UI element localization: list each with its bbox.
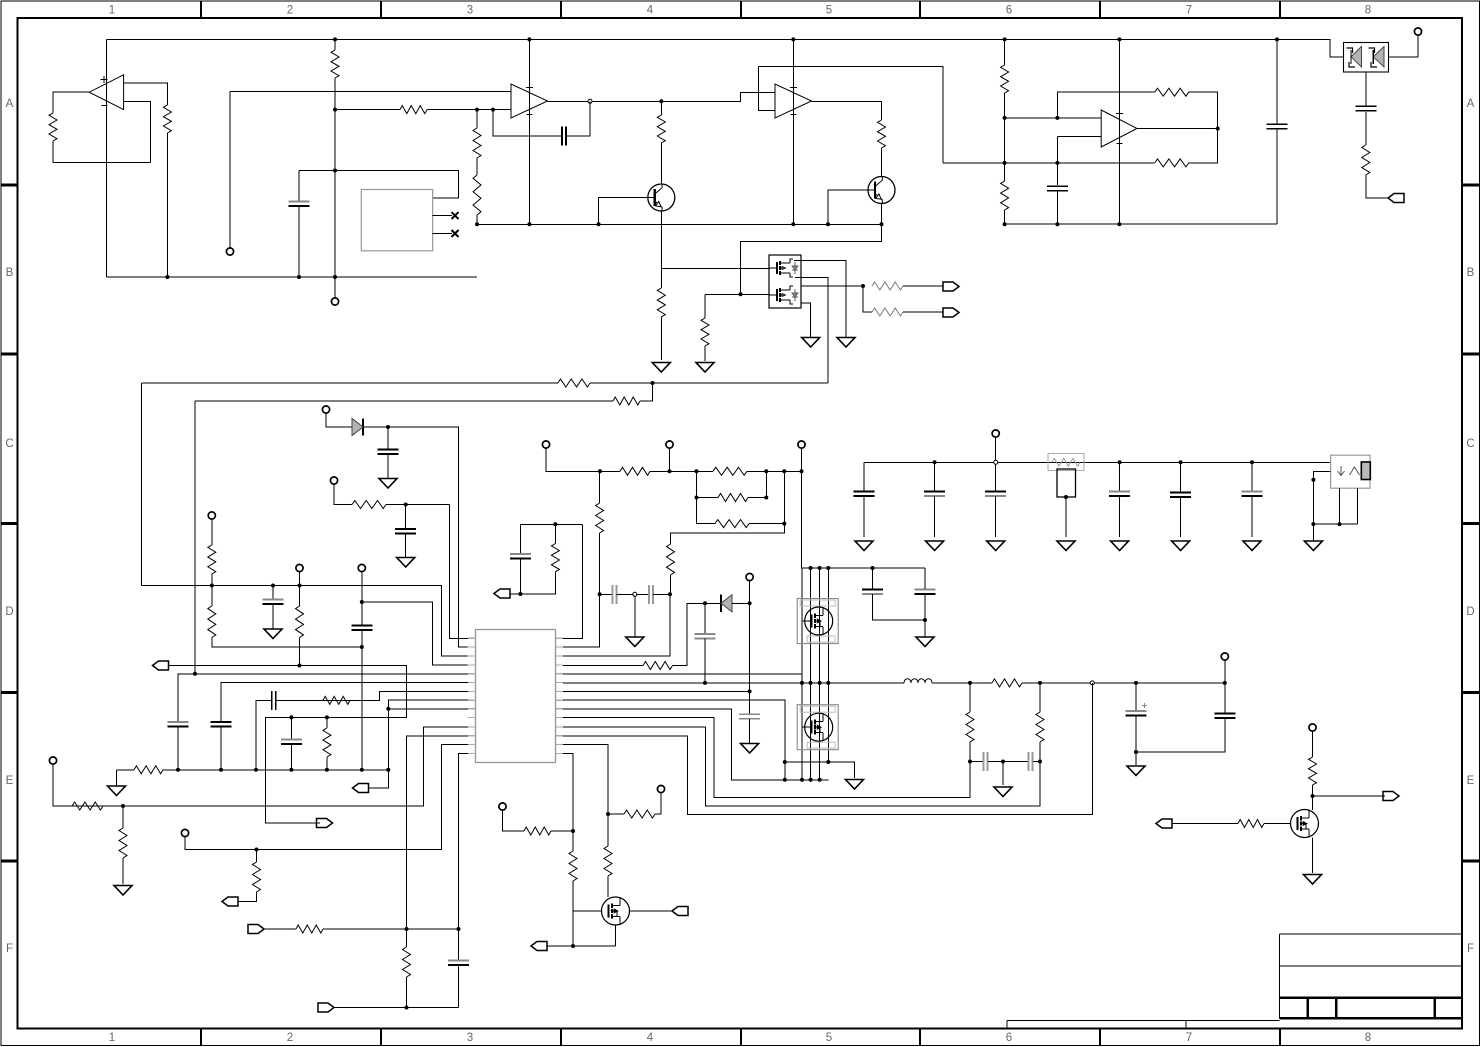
wire V749	[749, 581, 751, 715]
wire pin11R	[563, 727, 1040, 806]
wire U2 out	[548, 93, 776, 102]
wire gate Q6	[573, 910, 602, 912]
wire V828 lower	[827, 683, 829, 762]
ground GND24	[397, 558, 415, 568]
IC U6 box	[476, 630, 556, 763]
capacitor C30	[448, 961, 469, 966]
terminal J18	[1309, 724, 1316, 731]
wire C11 drop	[995, 464, 997, 491]
wire pin5R	[563, 673, 802, 675]
svg-text:3: 3	[467, 5, 473, 17]
wire R5-R6	[476, 158, 478, 175]
ground GND21	[1127, 766, 1145, 776]
net tag DRV1	[672, 907, 688, 916]
resistor R21	[208, 606, 216, 638]
svg-text:8: 8	[1365, 1032, 1371, 1044]
wire J2 stub	[229, 92, 231, 248]
wire pin7R	[563, 690, 750, 692]
resistor R41	[72, 802, 103, 810]
node U2 out feedback	[588, 99, 592, 103]
wire pin1L	[449, 505, 468, 639]
terminal J19	[330, 477, 337, 484]
wire y770 gnd drop	[116, 770, 118, 786]
ground GND12	[1172, 541, 1190, 551]
net tag FB2	[318, 1003, 334, 1012]
wire pin12L	[407, 736, 469, 929]
wire C10 down	[934, 496, 936, 537]
wire rail to R11	[1004, 39, 1006, 65]
wire cap C18 drop	[290, 717, 292, 739]
TVS D1 box	[1344, 43, 1389, 73]
wire Q1 collector	[660, 143, 662, 184]
capacitor C5	[289, 202, 310, 207]
wire V802 feed	[801, 471, 804, 568]
wire Q3 mid out	[801, 285, 863, 287]
resistor R16	[872, 282, 903, 290]
resistor R9	[878, 120, 886, 148]
svg-text:D: D	[1466, 606, 1474, 618]
row labels right	[1466, 98, 1474, 955]
dual MOSFET Q3	[769, 255, 801, 308]
wire cap C5 top	[298, 171, 300, 202]
title block row1	[1279, 965, 1462, 967]
node open J11	[994, 460, 998, 464]
wire C14 drop	[1251, 462, 1253, 491]
svg-text:2: 2	[287, 1032, 293, 1044]
resistor R31	[551, 544, 559, 572]
wire mid bus	[477, 223, 882, 225]
wire R3 down	[334, 78, 336, 298]
wire U5 pin2 L	[1313, 471, 1357, 524]
wire V819 upper	[819, 568, 821, 683]
wire Q7 drain tag	[1313, 795, 1386, 797]
wire J19 stub	[334, 484, 352, 505]
wire C22 down	[704, 639, 706, 683]
svg-text:C: C	[1466, 438, 1474, 450]
wire TVS center tap	[1365, 72, 1367, 106]
row tick marks left	[1, 185, 18, 861]
wire Q6 drain tag	[630, 910, 672, 912]
MOSFET Q5 boxed	[797, 705, 838, 750]
wire C4 down	[1365, 112, 1367, 145]
wire flag y594	[511, 593, 521, 595]
capacitor C15	[168, 722, 189, 727]
terminal J7	[358, 564, 365, 571]
capacitor C4	[1355, 106, 1376, 111]
svg-text:7: 7	[1186, 1032, 1192, 1044]
wire C28 gnd	[1135, 752, 1137, 765]
ground GND14	[1304, 541, 1322, 551]
wire TVS right to J3	[1389, 36, 1419, 58]
wire C13 down	[1180, 497, 1182, 537]
wire C11 down	[995, 496, 997, 537]
terminal J6	[296, 564, 303, 571]
wire pin13R	[563, 745, 608, 815]
wire C15 down	[177, 727, 179, 770]
wire C10 drop	[934, 462, 936, 491]
wire D3 right	[732, 602, 750, 604]
wire gate bus upper	[661, 267, 769, 269]
capacitor C17	[272, 691, 276, 710]
junction dots V784 bus	[783, 778, 822, 782]
wire y761 bus	[970, 761, 983, 763]
MOSFET Q4 boxed	[797, 599, 838, 644]
junction dot y647	[360, 645, 364, 649]
ground GND20	[994, 787, 1012, 797]
resistor R2	[163, 105, 171, 133]
junction dot y929b	[457, 927, 461, 931]
resistor R48	[352, 501, 386, 509]
capacitor C21	[649, 585, 653, 604]
resistor R22	[296, 606, 304, 638]
row tick marks right	[1462, 185, 1480, 861]
wire R15 to tag	[1366, 175, 1388, 198]
wire R22 top	[299, 586, 301, 607]
title block outer	[1279, 934, 1462, 1018]
svg-text:2: 2	[287, 5, 293, 17]
ground GND9	[987, 541, 1005, 551]
wire R25 wires	[697, 471, 767, 497]
wire y929 line	[264, 928, 296, 930]
junction dots pair	[518, 522, 557, 596]
wire Q3 src1	[795, 278, 828, 384]
svg-text:C: C	[5, 438, 13, 450]
wire flag line y946	[547, 945, 616, 947]
wire -in bus U2 right	[427, 109, 511, 111]
junction dot y504	[404, 503, 408, 507]
wire y504 line	[386, 504, 449, 506]
svg-text:F: F	[6, 943, 13, 955]
node open y594	[633, 592, 637, 596]
title block band bottom	[1279, 1017, 1462, 1020]
junction dot Q3 node	[861, 284, 865, 288]
junction dot y665 R22	[298, 664, 302, 668]
resistor R38	[569, 851, 577, 881]
junction dot C24	[871, 566, 928, 622]
wire V784 ladder	[671, 471, 785, 544]
IC1 pin nc2	[433, 230, 459, 237]
svg-text:1: 1	[109, 5, 115, 17]
capacitor C23	[739, 714, 760, 719]
wire V819 lower	[819, 683, 821, 780]
wire C31 top	[405, 505, 407, 529]
wire rail to R3	[334, 39, 336, 50]
wire y401 bus	[195, 400, 613, 402]
junction dots top section	[165, 37, 1279, 296]
wire V810 lower	[810, 683, 812, 780]
capacitor C16	[211, 722, 232, 727]
U5 internals	[1338, 466, 1360, 476]
terminal J10	[798, 441, 805, 448]
resistor R28	[323, 696, 350, 704]
resistor R43	[253, 862, 261, 892]
wire U5 pin bottom1	[1339, 488, 1341, 524]
wire U4 -in	[1057, 136, 1101, 138]
wire Q4 gate tap	[802, 620, 812, 622]
wire C14 down	[1251, 496, 1253, 537]
svg-text:3: 3	[467, 1032, 473, 1044]
net tag PWM1	[531, 942, 547, 951]
capacitor C13	[1170, 493, 1191, 498]
svg-text:D: D	[5, 606, 13, 618]
wire cap line end	[653, 593, 670, 595]
wire y163 bus	[943, 162, 1154, 164]
wire R22 to flag line	[299, 638, 301, 666]
capacitor C28 elec	[1126, 703, 1148, 716]
inductor L1	[904, 679, 932, 683]
wire pin13L	[185, 745, 468, 850]
wire pin14R	[563, 753, 573, 946]
svg-text:7: 7	[1186, 5, 1192, 17]
wire C3 down	[1276, 129, 1278, 224]
wire R7 top	[660, 101, 662, 115]
wire C28 branch	[1135, 683, 1137, 711]
wire Q2 emitter	[741, 204, 882, 295]
wire J13 line dot	[255, 848, 259, 852]
ground GND7	[855, 541, 873, 551]
wire R14 to corner	[1057, 92, 1154, 118]
wire R5 top	[476, 110, 478, 128]
wire R34 right	[1022, 682, 1225, 684]
op-amp U2	[511, 84, 548, 118]
capacitor C3	[1267, 124, 1288, 129]
op-amp U3	[775, 84, 812, 118]
terminal J5	[208, 512, 215, 519]
terminal J14	[746, 573, 753, 580]
pi filter R36	[1036, 683, 1044, 762]
resistor R17	[872, 308, 903, 316]
wire U3 bypass top	[758, 66, 943, 163]
terminal J12	[49, 757, 56, 764]
wire V1277 top	[1276, 39, 1278, 124]
wire gate bus lower	[705, 293, 769, 295]
wire R18 to node	[590, 382, 828, 384]
wire C7 to gnd	[272, 604, 274, 629]
junction dots y585	[210, 584, 302, 588]
wire U3 through rail	[792, 39, 794, 224]
ground GND4	[802, 338, 820, 348]
wire L1 to R34	[932, 682, 992, 684]
junction dot C22	[703, 681, 707, 685]
ground GND23	[1304, 875, 1322, 885]
wire C19 down	[519, 559, 521, 595]
wire J15 stub	[1224, 660, 1226, 683]
resistor R32	[596, 503, 604, 533]
ground GND1	[652, 363, 670, 373]
wire J8 stub	[546, 448, 600, 471]
IC1 box	[361, 190, 432, 251]
ground GND2	[696, 363, 714, 373]
wire pin10R	[563, 717, 970, 797]
wire pin9R	[563, 709, 828, 780]
wire sense branch	[863, 286, 872, 312]
capacitor C20	[613, 585, 617, 604]
ground GND11	[1111, 541, 1129, 551]
capacitor C9	[854, 492, 875, 497]
junction dots y770	[176, 768, 390, 772]
junction dot y806	[121, 804, 125, 808]
diode D2	[352, 418, 363, 435]
wire J7 stub	[361, 572, 363, 603]
wire J4 to diode	[326, 413, 352, 427]
wire gnd drop y594	[634, 596, 636, 637]
junction dot V573a	[571, 829, 575, 833]
resistor R45	[403, 947, 411, 977]
svg-text:8: 8	[1365, 5, 1371, 17]
capacitor C19	[510, 554, 531, 559]
junction dot pin9L	[386, 707, 390, 711]
wire cap C6 branch	[387, 427, 389, 449]
wire C24 down	[873, 594, 926, 620]
wire C29 branch	[1224, 683, 1226, 713]
column tick marks top	[201, 1, 1280, 18]
wire R25 drop	[696, 471, 698, 497]
terminal J11	[992, 430, 999, 437]
ground GND8	[926, 541, 944, 551]
ground GND19	[916, 637, 934, 647]
wire J5 down	[211, 519, 213, 545]
wire R21 to y647	[212, 638, 362, 648]
wire C29 down	[1136, 718, 1225, 752]
svg-text:6: 6	[1006, 1032, 1012, 1044]
junction dot D2 line	[386, 425, 390, 429]
ground GND15	[108, 786, 126, 796]
capacitor C18	[281, 740, 302, 745]
resistor R15	[1362, 145, 1370, 175]
wire R26 wires	[697, 523, 785, 525]
wire big L left	[140, 383, 142, 586]
wire R43 drop	[256, 850, 258, 863]
svg-text:B: B	[6, 267, 14, 279]
wire C19 top	[519, 524, 521, 554]
wire pin4R	[563, 665, 643, 667]
wire V802 lower	[801, 683, 803, 780]
wire C5 down	[298, 206, 300, 277]
net tag DRV2	[1156, 819, 1172, 828]
resistor R14	[1155, 88, 1189, 96]
ground GND18	[846, 780, 864, 790]
junction dot spur	[826, 760, 830, 764]
junction dots ladder	[598, 469, 804, 525]
wire U2 feedback	[567, 101, 590, 136]
wire V1119	[1118, 39, 1120, 224]
TVS D1 diode right	[1369, 47, 1385, 68]
wire y1007 line	[334, 1007, 459, 1009]
TVS D1 diode left	[1347, 47, 1362, 68]
wire RT1 down	[1065, 497, 1067, 537]
resistor R30	[134, 766, 163, 774]
wire Q7 gate line	[1173, 823, 1239, 825]
net tag VOUT	[1383, 792, 1399, 801]
terminal J1	[331, 298, 338, 305]
wire bottom row B bus	[107, 276, 478, 278]
terminal J4	[322, 406, 329, 413]
junction dots pi top	[968, 681, 1042, 685]
wire C30 top	[458, 929, 460, 960]
wire R26 drop	[696, 498, 698, 524]
wire y471 right	[747, 470, 802, 472]
wire flag y665	[169, 666, 407, 824]
junction dot V784	[783, 760, 787, 764]
thermistor RT1	[1057, 469, 1076, 497]
wire Q2 base	[828, 190, 868, 224]
wire C16 down	[220, 727, 222, 770]
wire C23 down	[749, 719, 751, 743]
junction dot D3a	[703, 601, 707, 605]
wire pin8L flag drop	[387, 770, 389, 788]
wire C6 to gnd	[387, 454, 389, 479]
ground GND16	[626, 637, 644, 647]
terminal J9	[666, 441, 673, 448]
wire Q7 source	[1312, 838, 1314, 874]
wire pin6R bus	[563, 682, 904, 684]
ground GND6	[264, 629, 282, 639]
wire U4 fb top right	[1189, 92, 1218, 128]
wire cap line mid	[617, 593, 649, 595]
svg-text:4: 4	[647, 5, 654, 17]
wire R43 to tag	[238, 892, 257, 902]
wire C2 down	[1056, 191, 1058, 224]
wire D2 to corner	[363, 427, 468, 647]
wire C9 down	[863, 496, 865, 537]
wire U5 gnd stem	[1312, 524, 1314, 540]
regulator U5 box	[1331, 455, 1370, 488]
U5 pad	[1361, 462, 1370, 480]
approval strip	[1007, 1021, 1279, 1029]
node open y683	[1090, 681, 1094, 685]
resistor R40	[624, 810, 655, 818]
junction dot R32	[598, 592, 602, 596]
IC1 pin nc1	[433, 212, 459, 219]
wire cap C7 branch	[272, 586, 274, 600]
svg-text:A: A	[6, 98, 14, 110]
wire C28 down	[1135, 716, 1137, 753]
wire J10 stub	[801, 448, 803, 471]
wire C12 down	[1119, 496, 1121, 537]
diode D3	[721, 595, 732, 612]
junction dot pin3R	[668, 592, 672, 596]
column labels bottom	[109, 1032, 1371, 1044]
wire C8 down	[361, 630, 363, 770]
wire -in down	[1056, 137, 1058, 186]
capacitor C6	[378, 450, 399, 455]
column labels top	[109, 5, 1371, 17]
svg-text:E: E	[6, 775, 14, 787]
resistor R29	[323, 728, 331, 757]
capacitor C2	[1047, 186, 1068, 191]
capacitor C22	[695, 634, 716, 639]
net tag IN2	[317, 819, 333, 828]
wire U4 out	[1137, 128, 1218, 130]
wire R32 top	[599, 471, 601, 503]
wire V195	[194, 401, 196, 674]
junction dots bus683	[800, 681, 830, 685]
transistor Q2	[868, 177, 895, 204]
resistor R6	[473, 175, 481, 215]
wire U2 through rail	[528, 39, 530, 224]
wire y462 bus	[864, 461, 1331, 463]
wire U5 pin bottom2	[1357, 488, 1359, 524]
title block band top	[1279, 996, 1462, 999]
net tag PWM2	[222, 897, 238, 906]
wire R42 drop	[122, 806, 124, 828]
capacitor C24	[862, 590, 883, 595]
terminal J13	[181, 829, 188, 836]
wire R39 top	[607, 814, 609, 846]
wire V802 gate chain	[801, 568, 803, 683]
wire R6 bottom	[476, 215, 478, 224]
op-amp U4	[1101, 110, 1137, 147]
